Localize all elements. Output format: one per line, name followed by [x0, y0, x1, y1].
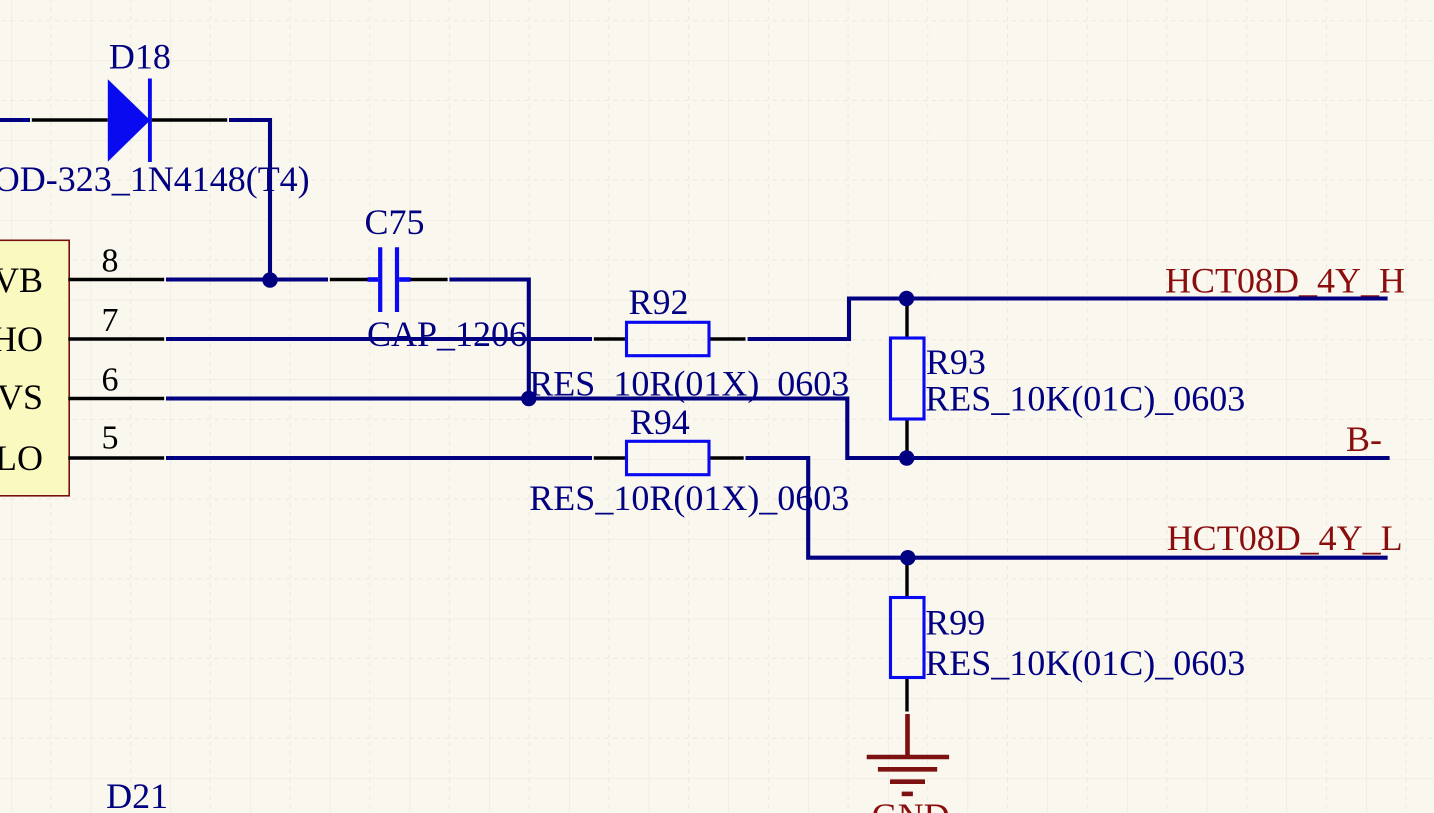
- resistor R93 pin top: [905, 299, 908, 339]
- svg-text:VS: VS: [0, 377, 43, 417]
- resistor R99: [891, 598, 925, 678]
- svg-text:D21: D21: [106, 776, 168, 813]
- svg-text:D18: D18: [109, 36, 171, 76]
- resistor R99 pin bottom: [905, 678, 908, 712]
- svg-text:7: 7: [102, 302, 119, 339]
- junction dot: [262, 272, 277, 287]
- svg-text:8: 8: [102, 243, 119, 280]
- junction dot: [900, 550, 915, 565]
- svg-text:HCT08D_4Y_L: HCT08D_4Y_L: [1167, 518, 1403, 558]
- junction dot: [899, 450, 914, 465]
- svg-text:LO: LO: [0, 438, 43, 478]
- svg-text:HO: HO: [0, 319, 43, 359]
- diode D18: [108, 79, 150, 163]
- resistor R99 pin top: [905, 563, 908, 598]
- capacitor C75 pin right: [410, 278, 447, 281]
- IC body: [0, 240, 69, 495]
- resistor R92 pin right: [709, 337, 746, 340]
- svg-text:R92: R92: [629, 282, 689, 322]
- svg-text:B-: B-: [1346, 419, 1382, 459]
- wire: [229, 120, 270, 280]
- svg-text:GND: GND: [872, 796, 950, 813]
- resistor R92: [627, 322, 710, 355]
- wire: [166, 277, 328, 281]
- wire: [449, 280, 528, 399]
- pin 5: [68, 456, 164, 459]
- pin 7: [68, 337, 164, 340]
- resistor R94: [627, 441, 710, 474]
- diode D18 pin cathode: [152, 118, 228, 121]
- svg-text:R93: R93: [926, 342, 986, 382]
- ground GND: [867, 714, 949, 794]
- svg-text:R99: R99: [925, 603, 985, 643]
- wire: [0, 118, 30, 122]
- pin 6: [68, 397, 164, 400]
- svg-text:5: 5: [102, 420, 119, 457]
- svg-text:RES_10K(01C)_0603: RES_10K(01C)_0603: [925, 379, 1245, 419]
- svg-text:R94: R94: [630, 402, 690, 442]
- wire: [166, 399, 1390, 459]
- svg-text:RES_10R(01X)_0603: RES_10R(01X)_0603: [529, 364, 849, 404]
- svg-text:HCT08D_4Y_H: HCT08D_4Y_H: [1165, 260, 1405, 300]
- capacitor C75: [368, 247, 411, 312]
- capacitor C75 pin left: [330, 278, 368, 281]
- svg-text:CAP_1206: CAP_1206: [367, 314, 527, 354]
- wire: [746, 458, 1388, 558]
- pin 8: [68, 278, 164, 281]
- resistor R92 pin left: [594, 337, 627, 340]
- svg-text:SOD-323_1N4148(T4): SOD-323_1N4148(T4): [0, 159, 310, 199]
- svg-text:6: 6: [102, 362, 119, 399]
- diode D18 pin anode: [32, 118, 108, 121]
- svg-text:RES_10K(01C)_0603: RES_10K(01C)_0603: [925, 643, 1245, 683]
- wire: [166, 337, 592, 341]
- resistor R93 pin bottom: [905, 419, 908, 452]
- wire: [166, 456, 592, 460]
- resistor R93: [891, 338, 925, 419]
- resistor R94 pin left: [594, 456, 627, 459]
- svg-text:RES_10R(01X)_0603: RES_10R(01X)_0603: [529, 478, 849, 518]
- junction dot: [521, 391, 536, 406]
- wire: [748, 299, 1388, 340]
- resistor R94 pin right: [709, 456, 744, 459]
- junction dot: [899, 291, 914, 306]
- svg-text:C75: C75: [365, 202, 425, 242]
- svg-text:VB: VB: [0, 260, 43, 300]
